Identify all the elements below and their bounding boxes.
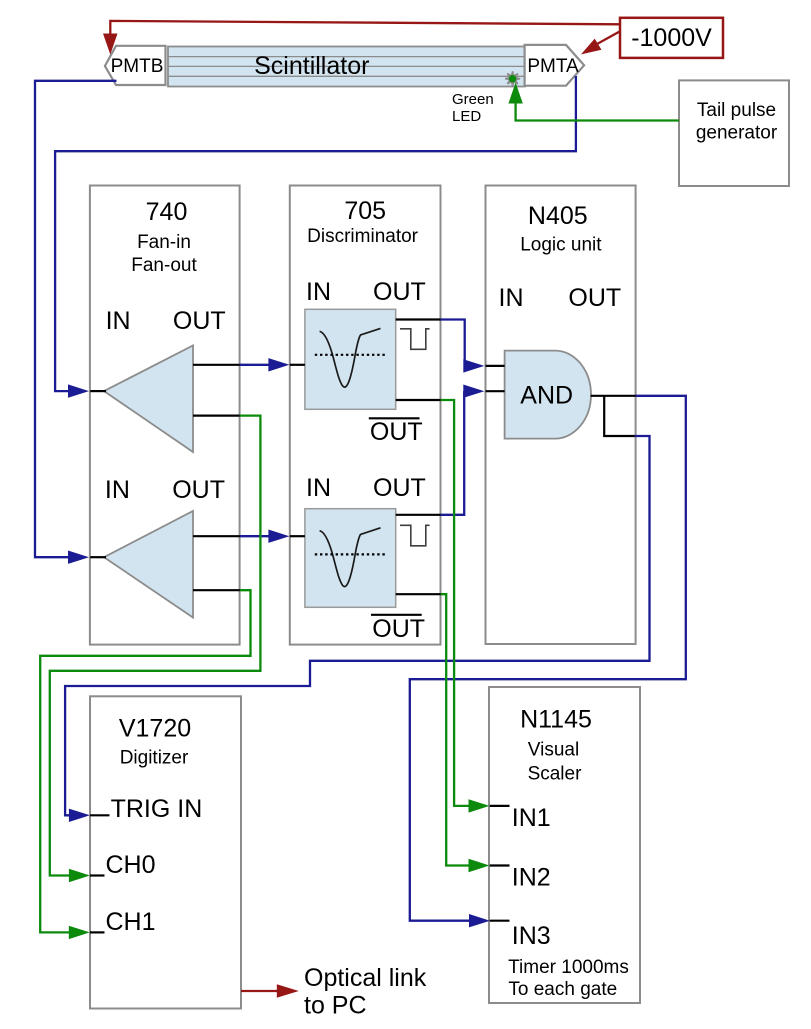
N1145 visual scaler box [489,687,640,1003]
svg-text:N1145: N1145 [520,706,592,734]
svg-text:OUT: OUT [370,418,423,446]
svg-text:-1000V: -1000V [631,24,712,52]
stub amp A1 input [90,390,106,392]
port label CH0 [106,851,156,879]
svg-text:TRIG IN: TRIG IN [111,795,203,823]
wire discriminator D2 OUT to AND input 2 [441,385,485,515]
wire tail pulse generator to LED [508,83,679,121]
svg-text:IN1: IN1 [512,804,551,832]
wire amp A2 lower output [193,589,240,591]
svg-text:N405: N405 [528,202,588,230]
svg-text:to PC: to PC [304,992,367,1020]
label Green LED [452,91,494,125]
svg-text:OUT: OUT [372,615,425,643]
port label CH1 [106,908,156,936]
stub amp A2 input [90,556,106,558]
svg-text:Green: Green [452,91,494,108]
stub discriminator D1 input [290,364,305,366]
svg-text:To each gate: To each gate [508,979,617,1000]
svg-text:OUT: OUT [172,476,225,504]
amplifier A2 triangle [104,511,193,618]
svg-text:IN2: IN2 [512,864,551,892]
svg-text:OUT: OUT [373,474,426,502]
stub digitizer TRIG IN [90,814,110,816]
stub digitizer CH1 [90,931,105,933]
svg-text:Fan-in: Fan-in [137,232,191,253]
wire PMTB to amp A2 input [35,81,117,564]
wire amp A1 upper output [193,364,240,366]
-1000V high voltage box [620,18,723,58]
wire HV to PMTB [103,21,621,55]
port label IN3 [512,922,551,950]
svg-text:Digitizer: Digitizer [120,748,189,769]
discriminator D2 output pulse symbol [400,525,430,546]
svg-text:AND: AND [520,382,573,410]
module 705 discriminator box [290,186,441,645]
svg-text:Discriminator: Discriminator [307,226,419,247]
wire AND output branch [604,396,635,436]
svg-text:705: 705 [344,197,386,225]
PMT B [105,46,166,85]
wire HV to PMTA [581,31,621,54]
tail pulse generator box [679,80,789,186]
svg-text:IN: IN [499,284,524,312]
wire discriminator D1 OUT to AND input 1 [441,320,485,373]
wire discriminator D1 OUT-bar to scaler IN1 [441,400,490,813]
green LED [505,71,520,86]
svg-text:IN: IN [306,278,331,306]
svg-text:Logic unit: Logic unit [520,235,602,256]
stub AND input 1 [486,365,505,367]
wire amp A2 lower output to digitizer CH1 [40,590,250,939]
wire amp A1 output to discriminator D1 input [240,358,290,371]
module N405 logic unit box [486,186,636,645]
discriminator D1 output pulse symbol [400,329,430,350]
svg-text:IN3: IN3 [512,922,551,950]
stub discriminator D2 input [290,535,305,537]
amplifier A1 triangle [104,346,193,453]
port label IN1 [512,804,551,832]
stub digitizer CH0 [90,874,105,876]
svg-text:OUT: OUT [568,284,621,312]
svg-text:LED: LED [452,108,481,125]
svg-text:OUT: OUT [173,307,226,335]
svg-text:Optical link: Optical link [304,964,427,992]
svg-text:Scintillator: Scintillator [254,52,369,80]
label optical link to PC [304,964,427,1020]
stub scaler IN2 [490,864,510,866]
discriminator D1 cell [305,309,396,409]
V1720 digitizer box [90,696,241,1008]
stub scaler IN3 [490,920,510,922]
wire PMTA to amp A1 input [55,76,576,398]
PMT A [525,45,585,86]
discriminator D1 OUT-bar label [369,418,423,446]
wire discriminator D2 OUT-bar [396,593,441,595]
svg-text:IN: IN [105,476,130,504]
stub AND input 2 [486,390,505,392]
svg-text:generator: generator [696,123,778,144]
svg-text:Visual: Visual [528,740,579,761]
AND gate U1 [505,351,591,439]
wire discriminator D2 OUT [396,514,441,516]
module 740 fan-in fan-out box [90,186,240,645]
discriminator D2 OUT-bar label [371,615,425,643]
wire discriminator D2 OUT-bar to scaler IN2 [441,594,490,872]
svg-text:OUT: OUT [373,278,426,306]
discriminator D2 cell [305,509,396,608]
svg-text:Fan-out: Fan-out [131,255,197,276]
wire AND output branch to digitizer TRIG IN [65,436,649,822]
wire AND output to scaler IN3 [410,396,686,928]
svg-text:IN: IN [106,307,131,335]
wire digitizer optical link output [241,984,299,998]
wire amp A1 lower output [193,415,240,417]
svg-text:Timer 1000ms: Timer 1000ms [508,957,629,978]
svg-text:CH0: CH0 [106,851,156,879]
svg-text:CH1: CH1 [106,908,156,936]
wire amp A1 lower output to digitizer CH0 [50,416,261,883]
svg-text:PMTB: PMTB [111,56,164,77]
svg-text:PMTA: PMTA [527,56,579,77]
wire discriminator D1 OUT-bar [396,399,441,401]
wire AND output [591,395,636,397]
port label TRIG IN [111,795,203,823]
wire amp A2 output to discriminator D2 input [240,530,290,543]
scintillator body [168,47,525,87]
svg-text:Scaler: Scaler [528,764,583,785]
stub scaler IN1 [490,805,510,807]
wire discriminator D1 OUT [396,318,441,320]
svg-text:V1720: V1720 [119,715,191,743]
port label IN2 [512,864,551,892]
svg-text:Tail pulse: Tail pulse [697,100,776,121]
svg-text:740: 740 [146,198,188,226]
svg-text:IN: IN [306,474,331,502]
wire amp A2 upper output [193,535,240,537]
